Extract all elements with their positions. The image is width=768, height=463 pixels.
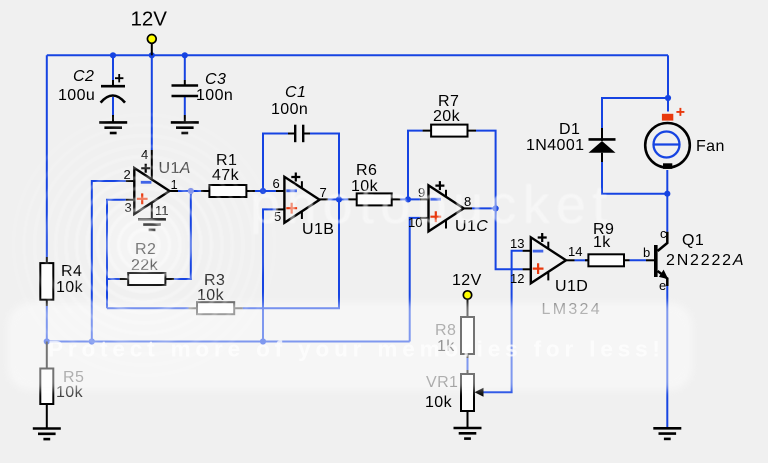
- ground below C2: [99, 122, 127, 133]
- wire 12V to U1A pin4: [151, 55, 153, 150]
- node Vref pin5 junction: [260, 338, 266, 344]
- node fan minus junction: [664, 191, 670, 197]
- svg-text:Q1: Q1: [682, 232, 704, 249]
- wire U1A pin3 left leg: [107, 200, 126, 308]
- wire Vref rail horizontal: [47, 341, 410, 343]
- svg-text:12V: 12V: [131, 8, 168, 31]
- wire R9 to Q1 base: [630, 259, 647, 261]
- node R1 C1 pin6 junction: [260, 188, 266, 194]
- svg-text:C1: C1: [285, 84, 306, 101]
- svg-text:12: 12: [510, 271, 524, 286]
- wire C2 top: [112, 55, 114, 80]
- wire C1 right down to U1B output node: [310, 134, 339, 200]
- svg-text:U1D: U1D: [555, 278, 588, 295]
- wire C3 top: [184, 55, 186, 80]
- watermark lens rings: [14, 115, 275, 376]
- wire 12V top rail: [47, 54, 668, 56]
- svg-text:1k: 1k: [593, 234, 611, 251]
- svg-text:C2: C2: [73, 68, 94, 85]
- svg-text:10k: 10k: [425, 394, 453, 411]
- wire U1D output to R9: [575, 259, 589, 261]
- node fan plus junction: [665, 95, 671, 101]
- svg-text:1N4001: 1N4001: [526, 137, 584, 154]
- svg-text:13: 13: [510, 236, 524, 251]
- wire output node up to C1 left: [263, 134, 288, 192]
- ground below C3: [171, 122, 199, 133]
- node U1C output junction: [493, 205, 499, 211]
- resistor R6: [348, 193, 400, 205]
- wire U1A output to R1: [178, 190, 201, 192]
- resistor R5: [40, 342, 53, 429]
- svg-text:c: c: [660, 226, 667, 241]
- wire pin3 node to R3 left: [107, 307, 189, 309]
- wire R4 bottom to Vref rail junction: [46, 306, 48, 342]
- ground below R5: [33, 429, 61, 440]
- svg-text:2N2222A: 2N2222A: [666, 252, 745, 269]
- node C3 top junction: [182, 52, 188, 58]
- op-amp U1A: [126, 150, 178, 219]
- svg-text:4: 4: [141, 147, 148, 162]
- wire U1B pin5 to Vref rail: [263, 209, 276, 341]
- wire U1B output node down to R3 right: [243, 199, 339, 308]
- watermark bottom glow box: [8, 303, 692, 390]
- resistor R2: [120, 273, 174, 285]
- wire C2 bottom: [112, 97, 114, 115]
- capacitor C3: [172, 80, 199, 122]
- wire U1B output to R6: [328, 198, 348, 200]
- wire left rail from top rail down to R4: [46, 55, 48, 257]
- svg-text:100n: 100n: [271, 101, 308, 118]
- svg-text:C3: C3: [205, 71, 226, 88]
- svg-text:12V: 12V: [452, 272, 482, 289]
- svg-text:Fan: Fan: [696, 138, 725, 155]
- wire D1 bottom to fan minus node: [602, 162, 667, 194]
- wire R2 left to pin3 leg: [107, 278, 120, 280]
- ground below Q1: [653, 428, 681, 439]
- resistor R1: [201, 185, 255, 197]
- wire C3 bottom: [184, 97, 186, 116]
- wire Q1 emitter down to ground: [666, 286, 668, 428]
- node C2 top junction: [110, 52, 116, 58]
- op-amp U1B: [276, 173, 328, 223]
- capacitor C1: [288, 125, 310, 143]
- wire U1D pin13 down to VR1 wiper: [482, 251, 523, 392]
- capacitor C2: [101, 74, 125, 122]
- node U1C pin9 junction: [405, 196, 411, 202]
- svg-text:100u: 100u: [58, 87, 95, 104]
- node Vref R4 R5 junction: [44, 338, 50, 344]
- wire R8 VR1 link: [467, 358, 469, 370]
- svg-text:e: e: [659, 278, 666, 293]
- svg-text:b: b: [643, 245, 650, 260]
- wire pin9 node up to R7 left: [408, 131, 423, 200]
- svg-text:14: 14: [568, 244, 582, 259]
- resistor R7: [423, 125, 476, 137]
- ground below U1A pin11: [138, 219, 166, 230]
- svg-text:20k: 20k: [433, 108, 461, 125]
- terminal 12V bottom: [463, 291, 471, 308]
- watermark lens glow core: [92, 193, 196, 297]
- svg-text:D1: D1: [559, 121, 580, 138]
- wire U1C pin10 down leg: [410, 218, 420, 342]
- node U1A output junction: [188, 188, 194, 194]
- op-amp U1D: [523, 233, 575, 283]
- resistor R8: [461, 308, 474, 358]
- resistor R9: [585, 254, 630, 266]
- node Vref pin2 junction: [89, 338, 95, 344]
- svg-text:photobucket: photobucket: [250, 175, 614, 235]
- node 12V terminal junction: [149, 52, 155, 58]
- transistor Q1: [646, 232, 668, 286]
- op-amp U1C: [420, 181, 472, 231]
- svg-text:Protect more of your memories: Protect more of your memories for less!: [48, 337, 665, 362]
- terminal 12V top: [147, 35, 156, 56]
- wire fan plus node to D1 top: [602, 98, 668, 128]
- wire U1C output right: [472, 207, 496, 209]
- wire U1A pin2 to Vref rail: [92, 181, 126, 342]
- potentiometer VR1: [461, 370, 484, 428]
- svg-text:100n: 100n: [196, 87, 233, 104]
- diode D1: [589, 128, 616, 162]
- wire R2 right up to output node: [174, 191, 191, 279]
- fan motor M1: [645, 108, 690, 169]
- wire U1C output node down to U1D pin12: [496, 208, 523, 269]
- node U1B output junction: [336, 196, 342, 202]
- resistor R3: [189, 302, 243, 314]
- wire R1 right to U1B pin6: [255, 190, 276, 192]
- resistor R4: [40, 257, 53, 306]
- wire top rail right corner down to fan plus: [667, 55, 669, 111]
- wire R7 right down to U1C output node: [476, 131, 496, 209]
- wire R6 right to U1C pin9: [400, 198, 420, 200]
- wire fan bottom to Q1 collector: [666, 170, 668, 232]
- ground below VR1: [454, 428, 482, 439]
